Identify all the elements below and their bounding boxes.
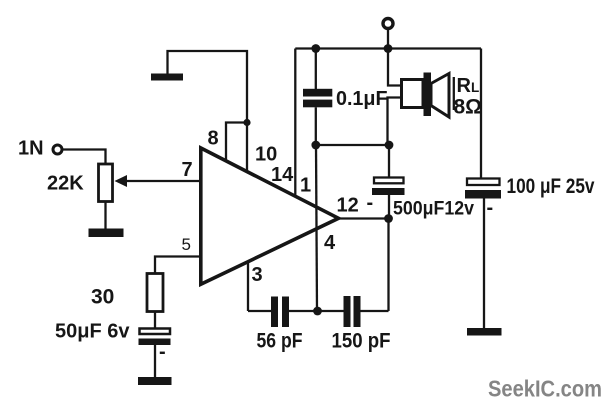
capacitor 56pF [271,297,289,328]
wire: output junction down to bottom rail [387,219,389,312]
svg-text:-: - [367,192,374,214]
ground (50uF) [138,377,172,385]
svg-text:-: - [159,341,166,363]
svg-text:14: 14 [271,164,294,186]
capacitor 100uF [465,179,501,199]
wire: pin 10 [246,123,248,173]
svg-text:1N: 1N [18,138,44,160]
capacitor 500uF [372,178,405,196]
wire: 0.1uF bottom lead [315,107,317,145]
svg-text:3: 3 [252,264,263,286]
wire: 0.1uF top lead [315,49,317,91]
wire: top-left ground rail [168,51,248,123]
wire: bottom rail right [361,310,389,312]
svg-text:500μF12v: 500μF12v [393,199,474,220]
resistor 30 [147,274,163,312]
wire: resistor to 50uF [154,312,156,330]
svg-text:7: 7 [182,159,193,181]
svg-text:10: 10 [255,144,277,166]
wire: bottom rail left [248,310,272,312]
svg-text:RL: RL [457,75,480,97]
svg-text:1: 1 [300,175,311,197]
svg-text:56 pF: 56 pF [257,330,303,353]
wire: pot to ground [104,202,106,230]
capacitor 50uF [139,329,171,346]
wire: positive supply rail [295,47,481,49]
node: mid rail left [311,141,320,150]
svg-text:5: 5 [182,235,191,254]
node: pin8/pin10 junction [243,119,250,126]
node: output junction [384,214,393,223]
node: mid rail right [385,141,394,150]
svg-text:-: - [487,197,494,219]
wire: speaker bottom lead [388,98,402,146]
op-amp U1 [201,148,339,284]
wire: 100uF bottom lead [483,199,485,330]
wire: output pin 12 [338,217,389,219]
svg-text:SeekIC.com: SeekIC.com [488,376,602,402]
svg-text:50μF 6v: 50μF 6v [55,321,130,343]
wire: speaker top lead [388,49,402,86]
wire: 100uF branch top [480,49,482,179]
capacitor 0.1uF [303,89,332,107]
ground (top left) [151,74,183,81]
node: bottom rail junction [313,307,322,316]
wire: pin 14 / pin 4 line through IC [316,145,317,311]
potentiometer wiper arrow / wire pin 7 [115,175,202,187]
ground (pot) [89,229,124,238]
wire: pin 1 [294,49,296,197]
node: rail / speaker [384,44,393,53]
svg-text:100 μF 25v: 100 μF 25v [507,175,595,198]
wire: pin 3 [247,263,249,312]
wire: 500uF bottom lead [388,195,390,219]
speaker RL [402,73,454,118]
node: rail / 0.1uF [311,44,320,53]
svg-text:30: 30 [91,286,114,309]
svg-text:12: 12 [337,195,359,217]
wire: pin 5 [155,257,201,274]
ground (100uF) [467,328,502,336]
potentiometer 22K body [99,164,113,202]
svg-text:8: 8 [208,128,219,150]
wire: input to potentiometer [63,150,106,165]
input terminal 1N [53,145,62,154]
svg-text:0.1μF: 0.1μF [336,88,388,110]
wire: pin 8 stub [226,123,247,162]
capacitor 150pF [344,296,361,327]
wire: bottom rail middle [289,310,344,312]
wire: terminal stem [387,30,389,49]
svg-text:22K: 22K [47,173,84,195]
wire: 50uF to ground [154,345,156,378]
svg-text:4: 4 [324,232,336,254]
wire: 500uF top lead [388,145,390,178]
svg-text:8Ω: 8Ω [454,96,483,119]
wire: mid rail [316,144,389,146]
svg-text:150 pF: 150 pF [332,330,391,353]
supply terminal [383,19,393,29]
